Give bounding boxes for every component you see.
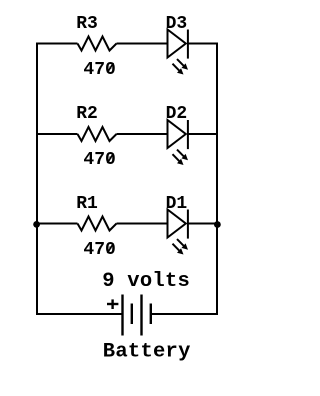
svg-text:470: 470 xyxy=(83,150,115,170)
wire row3 middle segment xyxy=(117,43,167,45)
svg-text:R3: R3 xyxy=(76,14,98,34)
wire row2 right segment xyxy=(188,133,218,135)
svg-text:D3: D3 xyxy=(166,14,188,34)
svg-text:R1: R1 xyxy=(76,194,98,214)
junction dot left row1 xyxy=(33,221,40,228)
svg-text:9 volts: 9 volts xyxy=(102,270,190,293)
wire bottom from battery negative plate to right rail xyxy=(152,313,218,315)
slashed zero of 470 R2 xyxy=(107,153,113,163)
svg-text:R2: R2 xyxy=(76,104,98,124)
LED D2 xyxy=(168,120,189,165)
wire left rail xyxy=(36,43,38,316)
resistor R1 xyxy=(78,217,117,231)
svg-text:470: 470 xyxy=(83,60,115,80)
battery short plate 1 xyxy=(131,304,133,325)
wire bottom from left rail to battery positive plate xyxy=(36,313,122,315)
svg-text:470: 470 xyxy=(83,240,115,260)
wire row1 middle segment xyxy=(117,223,167,225)
LED D3 xyxy=(168,30,189,75)
wire row3 left segment xyxy=(36,43,78,45)
wire right rail xyxy=(216,43,218,316)
wire row2 left segment xyxy=(36,133,78,135)
resistor R3 xyxy=(78,37,117,51)
slashed zero of 470 R1 xyxy=(107,243,113,253)
wire row2 middle segment xyxy=(117,133,167,135)
resistor R2 xyxy=(78,127,117,141)
battery long plate 2 xyxy=(140,295,142,336)
wire row1 right segment xyxy=(188,223,218,225)
battery plus sign xyxy=(107,299,118,309)
LED D1 xyxy=(168,210,189,255)
wire row3 right segment xyxy=(188,43,218,45)
battery short plate 2 (negative) xyxy=(150,304,152,325)
junction dot right row1 xyxy=(214,221,221,228)
svg-text:Battery: Battery xyxy=(103,340,191,363)
wire row1 left segment xyxy=(36,223,78,225)
battery B1 positive long plate xyxy=(121,295,123,336)
slashed zero of 470 R3 xyxy=(107,63,113,73)
svg-text:D2: D2 xyxy=(166,104,188,124)
svg-text:D1: D1 xyxy=(166,194,188,214)
